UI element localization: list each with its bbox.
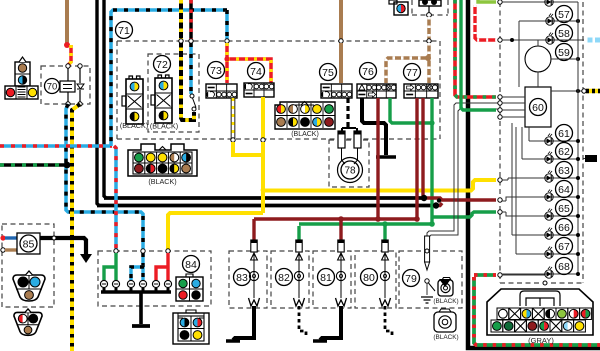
label 61 <box>556 125 573 142</box>
svg-text:73: 73 <box>210 65 222 77</box>
wire: brown feed to relay 70 <box>65 0 69 46</box>
wire: yellow vertical to junction <box>261 142 265 213</box>
label 60 <box>530 99 547 116</box>
label 67 <box>556 238 573 255</box>
connector: round single (BLACK) upper <box>438 278 453 297</box>
wire: meter line 59 <box>502 19 584 61</box>
connector: 2x2 plug in 84 <box>176 274 203 301</box>
wire: dark red to meter <box>0 0 1 1</box>
label 62 <box>556 143 573 160</box>
svg-text:72: 72 <box>156 59 168 71</box>
diode: LED 64 <box>545 190 553 202</box>
wire: thin pair to switch 79 <box>427 103 500 250</box>
label 68 <box>556 258 573 275</box>
node: connector circle at box edge <box>225 39 229 43</box>
connector: small 2-pin sensor plug <box>389 0 408 15</box>
dashed box: injector 81 <box>313 251 351 308</box>
svg-text:66: 66 <box>558 222 570 234</box>
diode: LED 62 <box>545 152 553 164</box>
svg-text:(BLACK): (BLACK) <box>291 131 319 138</box>
wire: ground comb in 84 <box>101 288 171 324</box>
label: (BLACK) <box>120 121 148 130</box>
node: dark red taps <box>375 216 420 222</box>
wire: box60 out yellow <box>551 89 600 93</box>
wire: injector drop 81 <box>339 219 342 240</box>
wire: injector drop 80 <box>383 226 386 240</box>
svg-text:58: 58 <box>558 28 570 40</box>
wire: sky-blue from relay 70 down <box>66 104 143 249</box>
dashed box: switch assembly 72 <box>148 54 199 132</box>
node: tap 80 <box>382 221 388 227</box>
node: junction brown/red-yellow <box>64 42 70 48</box>
wire: brown into 75 <box>339 43 343 83</box>
wire: dark red from 76 <box>376 98 379 218</box>
svg-text:67: 67 <box>558 241 570 253</box>
ground: triangle right of 79 <box>439 279 451 287</box>
dashed box: sensor 78 <box>329 140 369 187</box>
connector: pin into 79 <box>425 236 430 270</box>
wire: ground bus double vertical left <box>97 0 106 206</box>
dashed box: meter assembly <box>412 0 583 283</box>
wire: dark red continuation right lower <box>436 203 442 206</box>
label 66 <box>556 219 573 236</box>
svg-text:(BLACK): (BLACK) <box>433 334 458 341</box>
relay 85 box <box>17 233 40 254</box>
wire: green from 76 jog <box>390 98 435 126</box>
switch: contact in 72 <box>190 94 196 111</box>
wire: red-yellow into relay 70 <box>69 45 71 66</box>
wire: sky-blue into switch 72 <box>189 43 193 94</box>
diode: LED 63 <box>545 171 553 183</box>
node: green tap <box>429 221 435 227</box>
wire: light blue out <box>585 38 600 43</box>
svg-text:(BLACK): (BLACK) <box>433 298 458 305</box>
label: (BLACK) <box>433 298 458 305</box>
label 63 <box>556 162 573 179</box>
svg-text:80: 80 <box>363 272 375 284</box>
ground: arrow under 85 <box>80 254 92 263</box>
diode: LED 57 <box>545 0 553 6</box>
svg-text:78: 78 <box>344 166 356 177</box>
node: circle at 85 box edge <box>52 236 56 240</box>
wire: main black vertical right <box>468 0 600 348</box>
node: circle brown at harness edge <box>339 39 343 43</box>
wire: red-white to meter <box>475 5 496 40</box>
dashed box: injector 80 <box>355 251 396 308</box>
ground: chassis under 79 <box>421 297 433 303</box>
terminals: meter left edge <box>498 0 502 277</box>
sensor: speed sensor (cut) <box>419 0 441 17</box>
wire: yellow branch right to meter <box>263 180 496 191</box>
label: (BLACK) <box>433 334 458 341</box>
svg-text:79: 79 <box>405 273 417 285</box>
wire: sky-blue drop to node <box>225 10 229 39</box>
node: brown junction <box>425 55 431 61</box>
node: connector circles on box edge <box>179 39 193 43</box>
wire: red-green vertical <box>455 0 496 97</box>
wire: meter line 58 <box>519 21 578 87</box>
switch 79 contacts <box>425 279 435 295</box>
dashed box: injector 82 <box>271 251 309 308</box>
wire: light green top <box>478 0 496 2</box>
wire: sky-blue top horizontal + left vertical <box>111 10 227 146</box>
connector: 10-pin (BLACK) top middle <box>275 102 335 130</box>
terminals: bullet row in 84 <box>100 280 171 287</box>
dashed box: injector 83 <box>229 251 267 308</box>
node: circle at harness edge <box>231 138 235 142</box>
wire: green branch in 84 <box>104 253 117 280</box>
wire: yellow-black from relay 70 down to bottom <box>72 104 80 351</box>
dashed box: main harness boundary 71 region <box>117 41 440 139</box>
label 65 <box>556 200 573 217</box>
wire: black from 75 to pins of 78 <box>342 98 357 131</box>
wire: meter routing verticals <box>502 123 545 275</box>
injector 82 <box>294 240 307 336</box>
svg-text:59: 59 <box>558 47 570 59</box>
connector: round single (BLACK) lower <box>434 309 456 332</box>
node: circle at harness edge brown <box>427 39 431 43</box>
node: yellow corner junction <box>261 188 266 193</box>
dashed box: component 70 <box>41 66 90 104</box>
label 59 <box>556 44 573 61</box>
connector: 2x2 plug lower <box>173 310 209 344</box>
node: circle on dashed edge <box>543 281 547 285</box>
wire: green from 77 down <box>432 98 496 224</box>
connector: left plug of 72 <box>122 76 143 124</box>
headlight bulb left <box>13 271 45 301</box>
svg-text:(BLACK): (BLACK) <box>148 177 176 186</box>
svg-text:(BLACK): (BLACK) <box>120 121 148 130</box>
diode: LED 67 <box>545 247 553 259</box>
wire: blue-red horizontal left <box>0 144 112 148</box>
wire: line 68 to green-red terminal <box>0 0 1 1</box>
wire: brown main feed to 75 <box>339 0 343 39</box>
headlight bulb right <box>14 309 42 335</box>
wire: blue stub into 85 <box>0 235 17 240</box>
wire: yellow branch left to 84 <box>168 213 263 249</box>
svg-text:63: 63 <box>558 165 570 177</box>
svg-text:84: 84 <box>185 259 197 271</box>
wire: green solid vertical <box>461 0 496 110</box>
wire: green rail <box>299 222 432 225</box>
wire: green-on-black horizontal <box>0 163 64 167</box>
label: (BLACK) <box>291 131 319 138</box>
sensor 78 body <box>338 158 363 183</box>
wire: white-yellow from 73 <box>231 98 236 139</box>
wire: red-yellow to switch blocks <box>227 43 271 83</box>
dashed box: relay 85 + headlight <box>2 224 54 307</box>
svg-text:75: 75 <box>322 67 334 79</box>
label: (BLACK) <box>148 177 176 186</box>
svg-text:68: 68 <box>558 261 570 273</box>
svg-text:76: 76 <box>362 66 374 78</box>
node: red junction <box>224 56 229 61</box>
diode: LED 65 <box>545 209 553 221</box>
wire: dark red continuation right upper <box>423 198 496 200</box>
switch block 77 <box>404 84 438 98</box>
svg-text:74: 74 <box>250 66 262 78</box>
wire: black from 76 to ground <box>362 98 386 155</box>
wire: black-yellow vertical into 72 <box>181 0 194 120</box>
wire: brown-white to 76/77 <box>386 43 429 83</box>
node: junction at sky-blue/green-black <box>64 162 71 169</box>
node: bus end upper <box>421 195 427 201</box>
injector 81 <box>313 240 347 341</box>
wire: meter right bus <box>577 2 579 276</box>
label: (BLACK) <box>150 122 178 131</box>
wire: red branch in 84 <box>156 253 169 280</box>
injector 83 <box>226 240 260 341</box>
svg-text:62: 62 <box>558 146 570 158</box>
node: circle yellow harness edge <box>261 138 265 142</box>
connector: T flasher plug <box>5 57 38 99</box>
wire: blue-red drop to harness 84 <box>114 146 116 249</box>
dashed box: rear harness 84 <box>98 251 211 306</box>
wire: ground bus upper horizontal <box>104 196 424 200</box>
diode: LED 68 <box>545 267 553 279</box>
wire: yellow main drop from 74 <box>261 97 265 139</box>
svg-text:83: 83 <box>236 272 248 284</box>
wire: green-red bottom loop <box>474 275 600 345</box>
ground: T-bar under 84 <box>132 324 150 328</box>
diode: LED 66 <box>545 228 553 240</box>
node: bus end lower <box>433 202 439 208</box>
sensor pins 78 <box>338 131 361 164</box>
switch block 75 <box>321 84 352 98</box>
connector: 10-pin (BLACK) mid-left <box>128 144 197 176</box>
svg-text:57: 57 <box>558 9 570 21</box>
svg-text:77: 77 <box>406 67 418 79</box>
svg-text:85: 85 <box>23 238 35 250</box>
labels: component circles <box>20 22 421 287</box>
svg-text:60: 60 <box>532 102 544 114</box>
wire: black from 85 to ground <box>40 238 86 254</box>
connector: stub right of 62 <box>583 155 597 162</box>
label: (GRAY) <box>528 336 554 345</box>
connector: right plug of 72 <box>151 75 172 123</box>
wire: blue branch in 84 <box>131 253 144 280</box>
dashed box: sidestand switch 79 <box>399 251 462 308</box>
svg-text:(GRAY): (GRAY) <box>528 336 554 345</box>
label 64 <box>556 181 573 198</box>
wire: red-black vertical top <box>189 0 193 41</box>
ground: T-bar under 76 <box>376 155 396 159</box>
wire: injector drop 82 <box>297 226 300 240</box>
diode: LED 58 <box>546 14 554 26</box>
meter box 60 <box>525 72 551 127</box>
switch block 73 <box>206 84 237 98</box>
node: entry circles 84 <box>114 249 170 253</box>
wire: dark red rail <box>254 217 419 220</box>
svg-text:70: 70 <box>47 81 58 92</box>
injector 80 <box>380 240 393 336</box>
svg-text:61: 61 <box>558 128 570 140</box>
bulb: meter illumination <box>525 40 578 72</box>
svg-text:82: 82 <box>278 272 290 284</box>
wire: yellow elbow joining main yellow <box>233 142 263 155</box>
wires: indicator lines <box>502 139 580 276</box>
wire: brown stub into 85 <box>1 248 17 252</box>
wire: injector drop 83 <box>252 219 255 240</box>
wire: meter line 57 <box>502 1 578 3</box>
svg-text:71: 71 <box>118 25 130 37</box>
svg-text:64: 64 <box>558 184 570 196</box>
diode: LED 59 <box>546 33 554 45</box>
node: tap 81 <box>338 216 344 222</box>
wire: box60 inputs <box>502 97 525 117</box>
diode: LED 61 <box>545 134 553 146</box>
switch block 74 <box>244 83 274 97</box>
switch block 76 <box>357 84 396 98</box>
wire: brown-white from sensor <box>427 17 431 39</box>
wire: dark red from 77 <box>417 98 423 218</box>
label 58 <box>556 25 573 42</box>
node: dark red merge <box>437 198 441 202</box>
wire: ground bus lower horizontal <box>97 204 436 208</box>
svg-text:81: 81 <box>320 272 332 284</box>
connector: multi-pin (GRAY) <box>487 289 593 335</box>
label 57 <box>556 6 573 23</box>
svg-text:(BLACK): (BLACK) <box>150 122 178 131</box>
svg-text:65: 65 <box>558 203 570 215</box>
wire: relay 70 internals <box>60 64 84 106</box>
